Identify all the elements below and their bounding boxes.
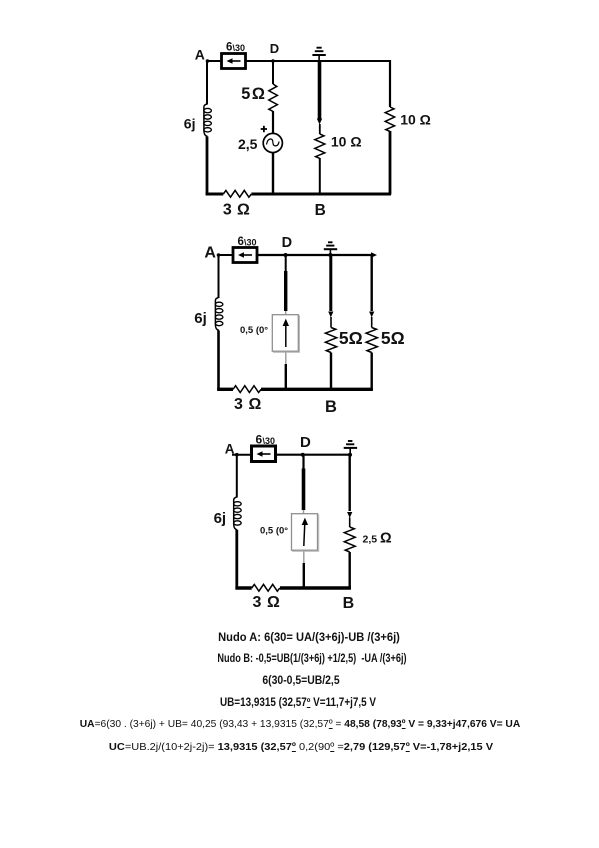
svg-text:6: 6 — [256, 433, 263, 447]
right branch wire upper c3 — [347, 455, 352, 527]
label 3 ohm circuit 3 — [253, 594, 281, 611]
ground symbol circuit 1 — [312, 48, 325, 61]
left branch wire upper — [206, 61, 208, 105]
svg-text:5Ω: 5Ω — [339, 328, 363, 348]
label 0,5 (0 deg for S3 — [260, 526, 288, 537]
svg-text:6: 6 — [226, 42, 232, 54]
bottom wire right of 3 ohm c3 — [280, 586, 351, 589]
bottom wire left of 3 ohm c3 — [235, 586, 251, 589]
equation line 6 UC result — [109, 741, 493, 753]
label 6\30 for I2 — [238, 236, 257, 248]
resistor 10 ohm right — [385, 107, 394, 131]
label 5 ohm no.2 c2 — [381, 328, 405, 348]
bottom wire left of 3 ohm c2 — [217, 388, 233, 391]
right branch wire upper — [389, 60, 391, 107]
svg-text:10 Ω: 10 Ω — [400, 112, 431, 128]
node A label circuit 2 — [204, 245, 216, 262]
bottom wire left of 3 ohm — [206, 193, 224, 196]
bottom wire right of 3 ohm — [251, 193, 391, 196]
svg-text:\30: \30 — [244, 238, 257, 248]
resistor 3 ohm circuit 3 — [252, 584, 280, 591]
right branch wire lower — [389, 131, 392, 195]
label 6j circuit 2 — [194, 310, 207, 327]
resistor 3 ohm circuit 1 — [223, 190, 251, 197]
node D label — [270, 41, 279, 63]
dependent current source S2 box — [272, 315, 299, 353]
equation line 1 Nudo A — [218, 632, 400, 644]
wire source to bottom — [272, 153, 274, 195]
left branch wire upper c3 — [236, 455, 238, 498]
branch no.2 wire lower c2 — [371, 353, 373, 391]
middle branch wire upper c3 — [302, 455, 304, 514]
label 6j circuit 1 — [184, 116, 196, 132]
wire A to current source c3 — [232, 453, 252, 457]
wire below S2 box — [285, 352, 287, 391]
left branch wire lower c3 — [235, 530, 238, 590]
svg-text:6: 6 — [238, 236, 244, 248]
label 5 ohm no.1 c2 — [339, 328, 363, 348]
svg-text:6j: 6j — [184, 116, 196, 132]
svg-text:D: D — [282, 235, 292, 251]
wire arrow to resistor — [319, 124, 321, 134]
current source I1 box — [222, 54, 246, 69]
branch 5 ohm no.1 wire upper c2 — [328, 255, 333, 328]
resistor 10 ohm middle — [315, 134, 325, 158]
resistor 5 ohm no.1 c2 — [325, 328, 336, 353]
left branch wire lower — [206, 137, 209, 195]
svg-text:3 Ω: 3 Ω — [253, 594, 281, 611]
resistor 5 ohm no.2 c2 — [366, 328, 377, 353]
label 6\30 for I1 — [226, 42, 245, 54]
equation line 2 Nudo B — [217, 653, 406, 665]
label 6\30 for I3 — [256, 433, 276, 447]
wire I3 to D c3 — [276, 454, 304, 456]
svg-text:3 Ω: 3 Ω — [223, 202, 250, 219]
resistor 5 ohm circuit 1 — [269, 84, 278, 111]
svg-text:\30: \30 — [233, 43, 246, 53]
wire below S3 box — [303, 551, 305, 589]
wire D to right arrow end c2 — [286, 252, 378, 257]
label 6j circuit 3 — [214, 510, 227, 527]
branch no.1 wire lower c2 — [330, 353, 332, 391]
wire D to right corner c3 — [303, 454, 351, 456]
svg-text:0,5 (0°: 0,5 (0° — [240, 325, 268, 336]
svg-text:5Ω: 5Ω — [241, 85, 266, 103]
node D label circuit 2 — [282, 235, 292, 257]
svg-text:5Ω: 5Ω — [381, 328, 405, 348]
wire middle resistor to bottom — [319, 158, 321, 195]
node B label circuit 1 — [315, 202, 326, 219]
svg-text:\30: \30 — [263, 436, 276, 446]
wire I2 to D c2 — [257, 254, 286, 256]
node B label circuit 3 — [343, 595, 355, 612]
wire D branch upper — [272, 61, 274, 84]
svg-text:3 Ω: 3 Ω — [234, 396, 262, 413]
svg-text:10 Ω: 10 Ω — [331, 134, 362, 150]
equation line 3 — [262, 675, 339, 687]
D branch wire upper c2 — [285, 255, 287, 315]
equation line 5 UA result — [80, 719, 520, 730]
label 0,5 (0 deg for S2 — [240, 325, 268, 336]
svg-text:B: B — [315, 202, 326, 219]
wire A to current source c2 — [217, 253, 233, 257]
svg-text:6j: 6j — [214, 510, 227, 527]
current source I3 box — [252, 446, 276, 462]
voltage source V1 circle — [263, 133, 282, 152]
current source I2 box — [233, 248, 257, 263]
label 2,5 ohm c3 — [363, 531, 393, 547]
svg-text:0,5 (0°: 0,5 (0° — [260, 526, 288, 537]
svg-text:6j: 6j — [194, 310, 207, 327]
ground symbol circuit 2 — [324, 242, 337, 257]
node A label circuit 3 — [225, 442, 235, 457]
resistor 2,5 ohm c3 — [344, 527, 355, 552]
inductor L3 6j — [234, 497, 242, 530]
dependent current source S3 box — [292, 514, 319, 552]
label 5 ohm circuit 1 — [241, 85, 266, 103]
wire resistor to source — [272, 111, 274, 134]
svg-text:B: B — [343, 595, 355, 612]
plus sign of source V1 — [261, 126, 267, 132]
wire current source to D — [246, 60, 274, 62]
svg-text:D: D — [300, 434, 311, 451]
left branch wire lower c2 — [217, 331, 220, 391]
node B label circuit 2 — [325, 398, 337, 416]
node D label circuit 3 — [300, 434, 311, 457]
label 10 ohm right — [400, 112, 431, 128]
label 3 ohm circuit 1 — [223, 202, 250, 219]
label 3 ohm circuit 2 — [234, 396, 262, 413]
label 10 ohm middle — [331, 134, 362, 150]
svg-text:2,5 Ω: 2,5 Ω — [363, 531, 393, 547]
wire D to right corner — [273, 60, 391, 62]
svg-text:A: A — [204, 245, 216, 262]
svg-text:2,5: 2,5 — [238, 136, 258, 152]
inductor L2 6j — [215, 298, 223, 331]
svg-text:A: A — [195, 47, 205, 63]
svg-text:D: D — [270, 41, 279, 56]
node A label — [195, 47, 205, 63]
left branch wire upper c2 — [218, 255, 220, 298]
middle branch thick wire with arrow — [317, 61, 322, 125]
branch 5 ohm no.2 wire upper c2 — [369, 255, 374, 328]
label 2,5 of source V1 — [238, 136, 258, 152]
resistor 3 ohm circuit 2 — [233, 386, 261, 393]
wire top-left A to current source — [206, 59, 222, 63]
equation line 4 UB result — [220, 697, 376, 709]
ground symbol circuit 3 — [344, 441, 357, 457]
bottom wire right of 3 ohm c2 — [261, 388, 373, 391]
right branch wire lower c3 — [349, 552, 351, 590]
svg-text:B: B — [325, 398, 337, 416]
inductor L1 6j — [204, 104, 212, 137]
